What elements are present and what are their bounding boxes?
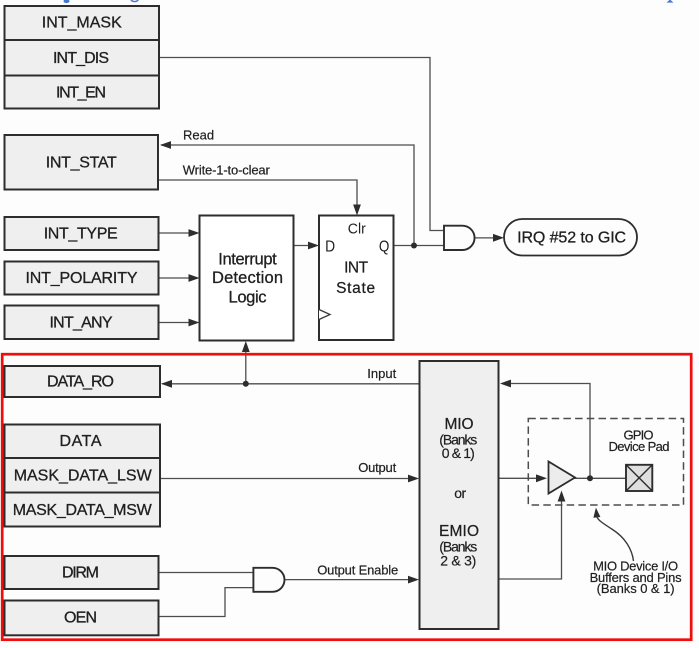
svg-text:Q: Q (379, 238, 390, 255)
svg-text:DATA: DATA (60, 433, 102, 450)
svg-text:or: or (454, 485, 466, 501)
svg-text:Output Enable: Output Enable (317, 562, 398, 577)
svg-text:(Banks 0 & 1): (Banks 0 & 1) (597, 581, 675, 596)
svg-text:INT_DIS: INT_DIS (53, 50, 109, 67)
svg-text:INT_EN: INT_EN (56, 85, 106, 102)
svg-text:2 & 3): 2 & 3) (440, 553, 476, 569)
svg-text:INT: INT (344, 260, 369, 277)
svg-text:Interrupt: Interrupt (218, 251, 277, 269)
svg-text:OEN: OEN (64, 610, 97, 627)
svg-text:IRQ #52 to GIC: IRQ #52 to GIC (517, 230, 626, 247)
svg-text:Input: Input (367, 366, 396, 381)
svg-text:Read: Read (183, 127, 214, 142)
svg-text:Logic: Logic (229, 288, 267, 306)
svg-text:DIRM: DIRM (62, 565, 99, 582)
svg-text:INT_TYPE: INT_TYPE (44, 225, 118, 242)
svg-text:DATA_RO: DATA_RO (47, 374, 114, 391)
svg-text:D: D (325, 238, 335, 255)
svg-text:State: State (336, 280, 375, 297)
svg-text:0 & 1): 0 & 1) (442, 445, 475, 461)
svg-text:Output: Output (358, 460, 396, 475)
svg-text:Write-1-to-clear: Write-1-to-clear (183, 163, 271, 178)
svg-text:MASK_DATA_LSW: MASK_DATA_LSW (14, 468, 153, 485)
svg-text:INT_POLARITY: INT_POLARITY (26, 270, 138, 287)
svg-text:Clr: Clr (348, 221, 366, 237)
svg-text:INT_MASK: INT_MASK (42, 14, 122, 31)
svg-text:INT_ANY: INT_ANY (50, 315, 113, 332)
svg-text:Device Pad: Device Pad (609, 439, 670, 454)
svg-text:MASK_DATA_MSW: MASK_DATA_MSW (13, 502, 153, 519)
svg-text:INT_STAT: INT_STAT (46, 155, 117, 172)
svg-text:Detection: Detection (212, 269, 283, 287)
